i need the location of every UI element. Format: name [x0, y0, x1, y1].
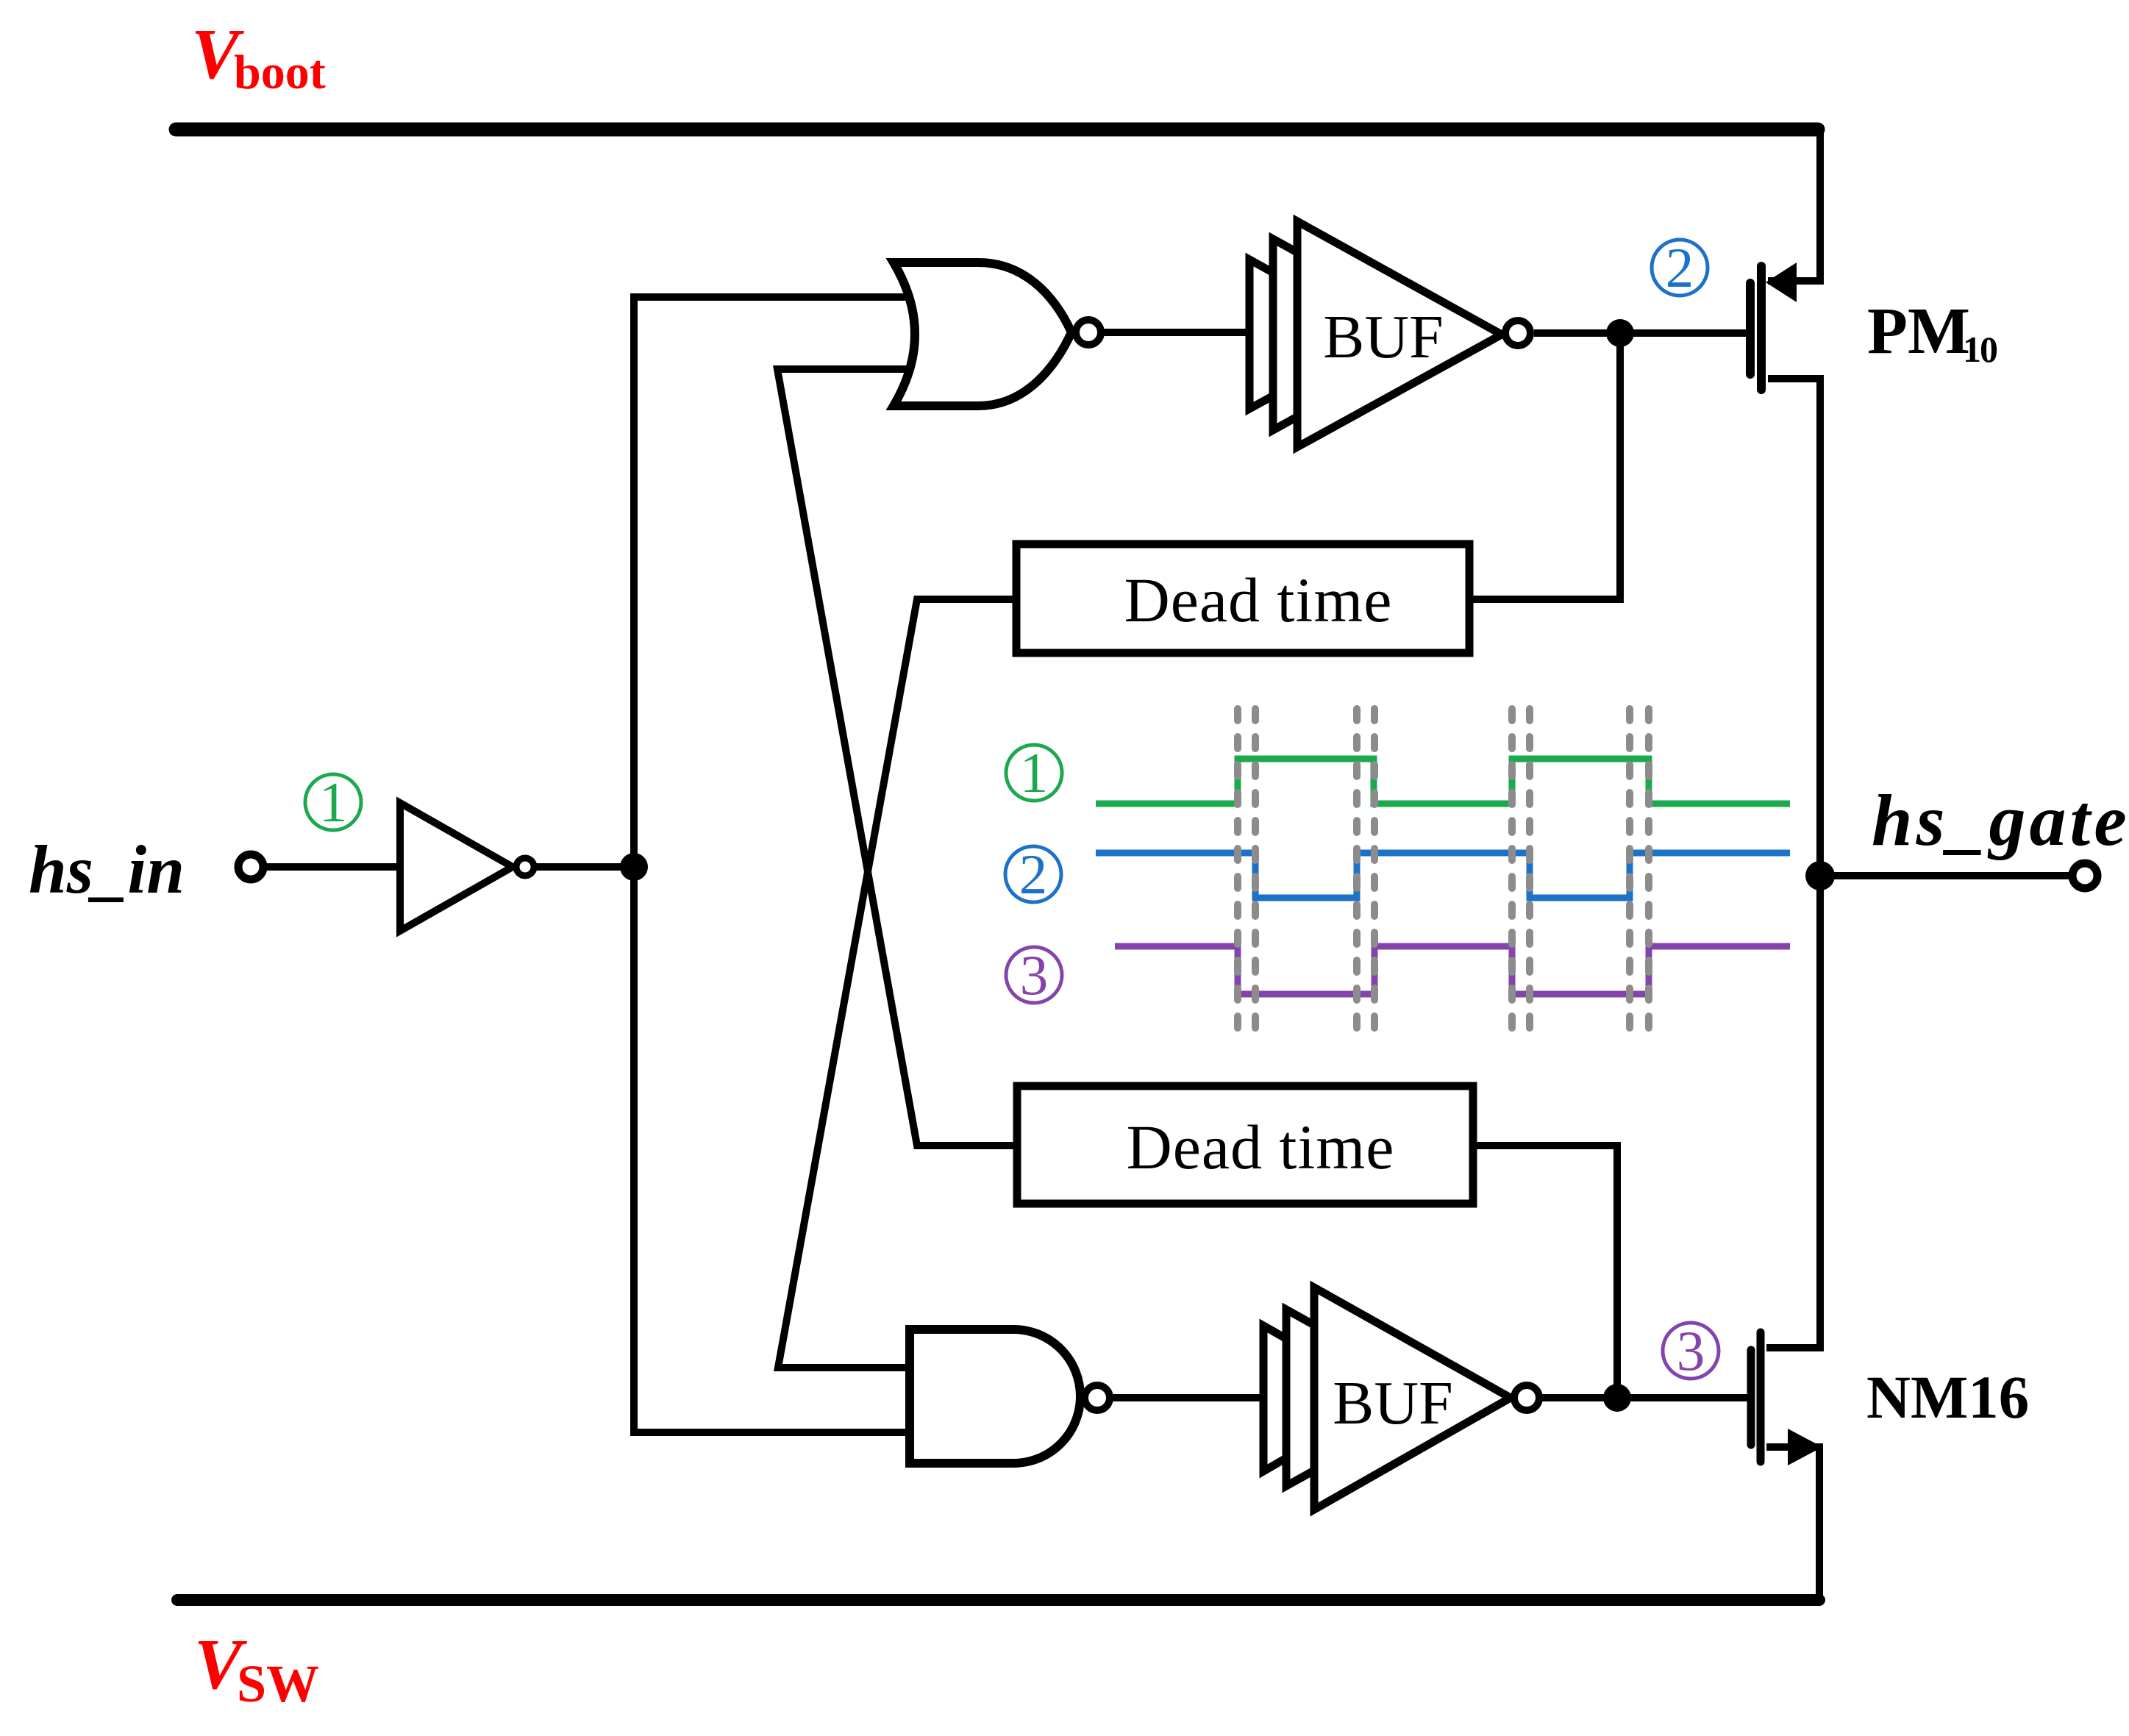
svg-text:Dead time: Dead time	[1127, 1112, 1395, 1182]
svg-text:hs_in: hs_in	[29, 832, 185, 908]
svg-text:hs_gate: hs_gate	[1872, 779, 2129, 861]
svg-text:boot: boot	[234, 46, 326, 99]
svg-text:1: 1	[1020, 741, 1049, 804]
svg-text:PM: PM	[1867, 295, 1970, 368]
svg-text:Dead time: Dead time	[1124, 565, 1393, 635]
svg-text:SW: SW	[237, 1654, 319, 1713]
svg-text:3: 3	[1677, 1319, 1705, 1382]
svg-text:3: 3	[1020, 943, 1049, 1007]
svg-text:2: 2	[1666, 236, 1694, 299]
svg-text:10: 10	[1963, 329, 1997, 370]
svg-text:BUF: BUF	[1323, 303, 1443, 371]
svg-text:2: 2	[1019, 843, 1048, 906]
svg-text:BUF: BUF	[1333, 1369, 1452, 1437]
svg-text:1: 1	[319, 771, 348, 834]
svg-text:NM16: NM16	[1866, 1363, 2029, 1431]
